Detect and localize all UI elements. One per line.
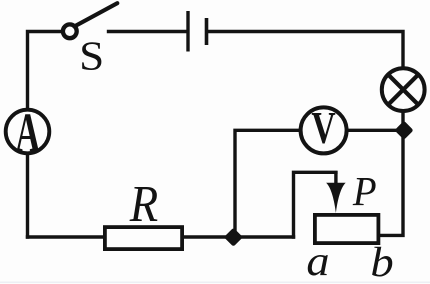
svg-text:P: P	[352, 168, 377, 214]
svg-text:V: V	[311, 102, 335, 153]
svg-text:b: b	[370, 238, 393, 284]
svg-text:a: a	[306, 237, 329, 284]
svg-text:S: S	[79, 34, 104, 79]
svg-text:R: R	[129, 175, 158, 233]
svg-text:A: A	[15, 104, 40, 165]
